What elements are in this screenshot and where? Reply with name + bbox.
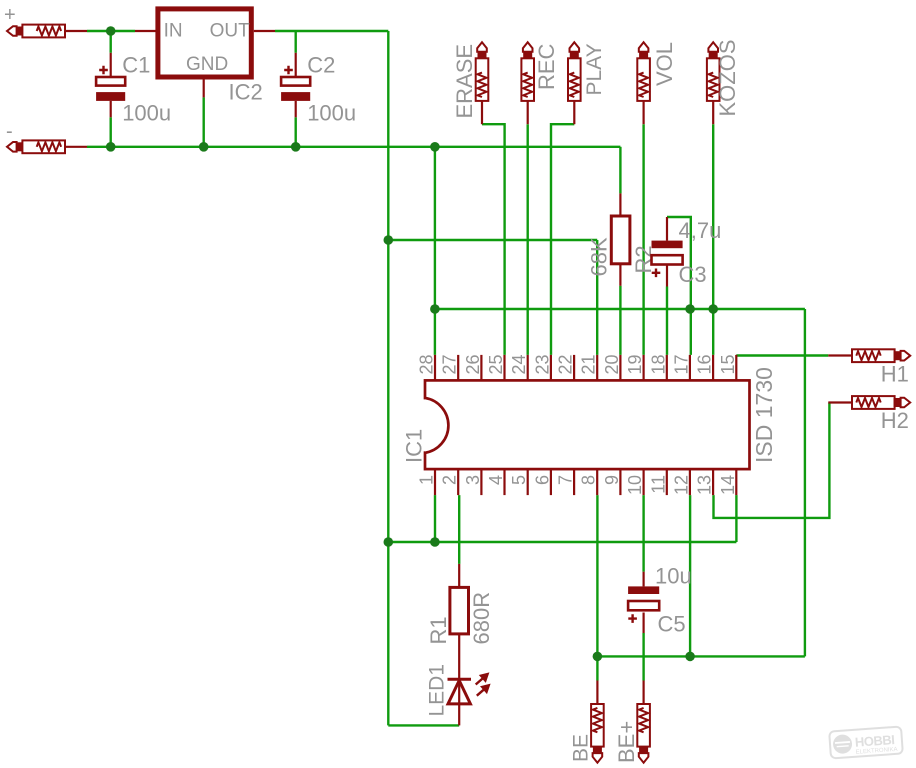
- capacitor C2: [281, 66, 310, 101]
- svg-text:REC: REC: [534, 43, 559, 90]
- connector REC: [521, 42, 534, 101]
- svg-text:8: 8: [579, 475, 599, 485]
- pin R1 top: [458, 564, 460, 588]
- connector BE+: [637, 704, 650, 763]
- node GND / BE: [593, 652, 603, 662]
- wire H2 to pin 13: [714, 403, 830, 518]
- pin of X2 minus jack: [65, 146, 87, 148]
- svg-text:10: 10: [625, 475, 645, 495]
- node GND / C3: [685, 304, 695, 314]
- wire C3 to pin 18: [666, 287, 668, 355]
- wire GND rail: [87, 146, 620, 148]
- pin of X1 plus jack: [65, 30, 87, 32]
- wire to C2 top: [295, 31, 297, 53]
- svg-text:LED1: LED1: [426, 664, 449, 717]
- pin GND of IC2: [203, 80, 205, 98]
- svg-text:IN: IN: [164, 21, 183, 42]
- svg-text:6: 6: [532, 475, 552, 485]
- pin 24 of IC1: [527, 355, 529, 381]
- pin 26 of IC1: [480, 355, 482, 381]
- pin 4 of IC1: [503, 469, 505, 495]
- wire V+ vertical: [387, 31, 389, 725]
- resistor R2: [611, 216, 630, 264]
- capacitor C5: [628, 586, 659, 622]
- pin 23 of IC1: [550, 355, 552, 381]
- pin ERASE: [481, 101, 483, 124]
- svg-text:3: 3: [463, 475, 483, 485]
- connector H2: [852, 396, 910, 409]
- pin 15 of IC1: [735, 355, 737, 381]
- pin C1 bottom: [110, 101, 112, 117]
- wire to pin 21: [596, 240, 598, 355]
- connector ERASE: [476, 42, 489, 101]
- pin C5 top: [642, 572, 644, 587]
- wire V+ rail y542: [388, 541, 736, 543]
- wire VOL to pin 19: [642, 124, 644, 355]
- wire pin 1 down: [434, 495, 436, 542]
- node GND / C1: [106, 142, 116, 152]
- wire to R2 top: [619, 147, 621, 194]
- node GND / KOZOS: [708, 304, 718, 314]
- svg-text:IC2: IC2: [229, 80, 263, 105]
- svg-text:4,7u: 4,7u: [679, 218, 722, 243]
- node V+ / pin1: [430, 537, 440, 547]
- pin 16 of IC1: [712, 355, 714, 381]
- pin 6 of IC1: [550, 469, 552, 495]
- connector KOZOS: [707, 42, 720, 101]
- svg-text:C2: C2: [307, 52, 335, 77]
- pin 2 of IC1: [457, 469, 459, 495]
- node GND / C2: [291, 142, 301, 152]
- pin REC: [527, 101, 529, 124]
- wire LED bottom: [388, 724, 459, 726]
- svg-text:16: 16: [695, 354, 715, 374]
- pin 13 of IC1: [712, 469, 714, 495]
- svg-text:680R: 680R: [469, 592, 494, 645]
- pin H1: [828, 354, 852, 356]
- wire to pin 14: [735, 495, 737, 542]
- capacitor C1: [96, 66, 125, 101]
- wire to BE: [596, 656, 598, 680]
- wire KOZOS to pin 16: [712, 124, 714, 355]
- svg-text:25: 25: [486, 354, 506, 374]
- wire pin 2 to R1: [458, 495, 460, 564]
- watermark logo: [829, 727, 903, 759]
- pin LED1 cathode: [458, 679, 460, 725]
- pin 5 of IC1: [527, 469, 529, 495]
- svg-text:7: 7: [556, 475, 576, 485]
- svg-text:H1: H1: [881, 361, 909, 386]
- wire pin 10 to C5: [642, 495, 644, 572]
- svg-text:BE: BE: [570, 734, 593, 762]
- svg-text:12: 12: [671, 475, 691, 495]
- connector X2 (- input): [7, 140, 65, 153]
- svg-text:100u: 100u: [122, 100, 171, 125]
- svg-text:22: 22: [556, 354, 576, 374]
- connector BE: [591, 704, 604, 763]
- svg-text:9: 9: [602, 475, 622, 485]
- wire C2 bottom: [295, 117, 297, 147]
- pin C3 top: [666, 217, 668, 241]
- svg-text:C5: C5: [658, 612, 686, 637]
- svg-text:11: 11: [648, 475, 668, 494]
- svg-text:19: 19: [625, 354, 645, 374]
- svg-text:-: -: [6, 121, 13, 143]
- pin OUT of IC2: [254, 30, 275, 32]
- svg-text:1: 1: [417, 475, 437, 485]
- node V+ / C1: [106, 26, 116, 36]
- svg-text:10u: 10u: [655, 563, 692, 588]
- wire R2 to pin 20: [619, 286, 621, 355]
- wire PLAY to pin 23: [551, 124, 574, 355]
- wire GND pin down: [202, 97, 204, 146]
- svg-text:17: 17: [671, 354, 691, 374]
- svg-text:14: 14: [718, 475, 738, 495]
- wire REC to pin 24: [527, 124, 529, 355]
- svg-text:15: 15: [718, 354, 738, 374]
- svg-text:13: 13: [695, 475, 715, 495]
- pin C2 bottom: [295, 101, 297, 117]
- pin 14 of IC1: [735, 469, 737, 495]
- wire ERASE to pin 25: [482, 124, 505, 355]
- pin 17 of IC1: [689, 355, 691, 381]
- pin 27 of IC1: [457, 355, 459, 381]
- pin H2: [828, 401, 852, 403]
- pin 20 of IC1: [619, 355, 621, 381]
- node V+ branch: [384, 235, 394, 245]
- pin BE: [596, 681, 598, 705]
- pin 7 of IC1: [573, 469, 575, 495]
- pin R2 bottom: [619, 264, 621, 286]
- svg-text:R1: R1: [426, 616, 451, 644]
- capacitor C3: [652, 241, 683, 278]
- pin PLAY: [573, 101, 575, 124]
- svg-text:+: +: [4, 4, 16, 26]
- wire pin 8 down: [596, 495, 598, 656]
- pin 3 of IC1: [480, 469, 482, 495]
- svg-text:18: 18: [648, 354, 668, 374]
- pin C5 bottom: [642, 613, 644, 634]
- svg-text:PLAY: PLAY: [583, 43, 606, 95]
- pin 12 of IC1: [689, 469, 691, 495]
- pin IN of IC2: [135, 30, 157, 32]
- svg-text:23: 23: [532, 354, 552, 374]
- pin R1 to LED1: [458, 634, 460, 679]
- node GND / IC2: [199, 142, 209, 152]
- svg-text:C3: C3: [679, 262, 707, 287]
- svg-text:BE+: BE+: [614, 721, 639, 763]
- op-amp U1: IC1 ISD 1730 body: [423, 380, 750, 469]
- pin 22 of IC1: [573, 355, 575, 381]
- wire C5 to BE+: [642, 633, 644, 681]
- node GND / pin12: [685, 652, 695, 662]
- wire V+ jack to IN: [87, 30, 135, 32]
- connector PLAY: [568, 42, 581, 101]
- wire pin 15 to H1: [736, 354, 828, 356]
- node GND branch: [430, 142, 440, 152]
- wire C1 bottom: [109, 117, 111, 147]
- svg-text:20: 20: [602, 354, 622, 374]
- connector X1 (+ input): [7, 25, 65, 38]
- wire to C1 top: [109, 31, 111, 53]
- pin 11 of IC1: [666, 469, 668, 495]
- pin C1 top: [110, 53, 112, 77]
- wire GND rail y656: [598, 655, 805, 657]
- LED LED1: [448, 672, 491, 704]
- wire GND right vertical: [804, 309, 806, 656]
- node V+ rail left: [384, 537, 394, 547]
- svg-text:2: 2: [440, 475, 460, 485]
- pin 25 of IC1: [503, 355, 505, 381]
- wire OUT to corner: [275, 30, 388, 32]
- pin 9 of IC1: [619, 469, 621, 495]
- resistor R1: [450, 587, 469, 634]
- svg-text:28: 28: [417, 354, 437, 374]
- pin VOL: [642, 101, 644, 124]
- voltage regulator IC2: [158, 9, 251, 77]
- svg-text:68K: 68K: [587, 237, 612, 276]
- pin C2 top: [295, 53, 297, 77]
- wire GND to pin 28: [434, 147, 436, 355]
- svg-text:ERASE: ERASE: [452, 44, 477, 119]
- pin 10 of IC1: [642, 469, 644, 495]
- svg-text:26: 26: [463, 354, 483, 374]
- svg-text:ISD 1730: ISD 1730: [751, 367, 777, 463]
- svg-text:21: 21: [579, 354, 599, 374]
- wire V+ to pin21 horizontal: [388, 239, 597, 241]
- svg-text:24: 24: [509, 354, 529, 374]
- svg-text:H2: H2: [881, 408, 909, 433]
- pin 8 of IC1: [596, 469, 598, 495]
- svg-text:IC1: IC1: [402, 429, 427, 463]
- svg-text:5: 5: [509, 475, 529, 485]
- node GND rail left: [430, 304, 440, 314]
- svg-text:GND: GND: [186, 54, 228, 75]
- pin BE+: [642, 681, 644, 705]
- wire pin 12 down: [689, 495, 691, 656]
- svg-text:C1: C1: [122, 52, 150, 77]
- pin 1 of IC1: [434, 469, 436, 495]
- connector VOL: [637, 42, 650, 101]
- svg-text:KOZOS: KOZOS: [715, 39, 740, 116]
- svg-text:27: 27: [440, 354, 460, 374]
- pin 19 of IC1: [642, 355, 644, 381]
- svg-text:100u: 100u: [307, 100, 356, 125]
- svg-text:VOL: VOL: [652, 42, 677, 86]
- pin 21 of IC1: [596, 355, 598, 381]
- wire GND rail y309: [435, 308, 805, 310]
- svg-text:4: 4: [486, 475, 506, 485]
- pin 28 of IC1: [434, 355, 436, 381]
- pin R2 top: [619, 193, 621, 216]
- wire C3 top to pin 17: [667, 217, 691, 355]
- svg-text:OUT: OUT: [210, 21, 251, 42]
- pin KOZOS: [712, 101, 714, 124]
- pin 18 of IC1: [666, 355, 668, 381]
- pin C3 bottom: [666, 265, 668, 287]
- connector H1: [852, 349, 910, 362]
